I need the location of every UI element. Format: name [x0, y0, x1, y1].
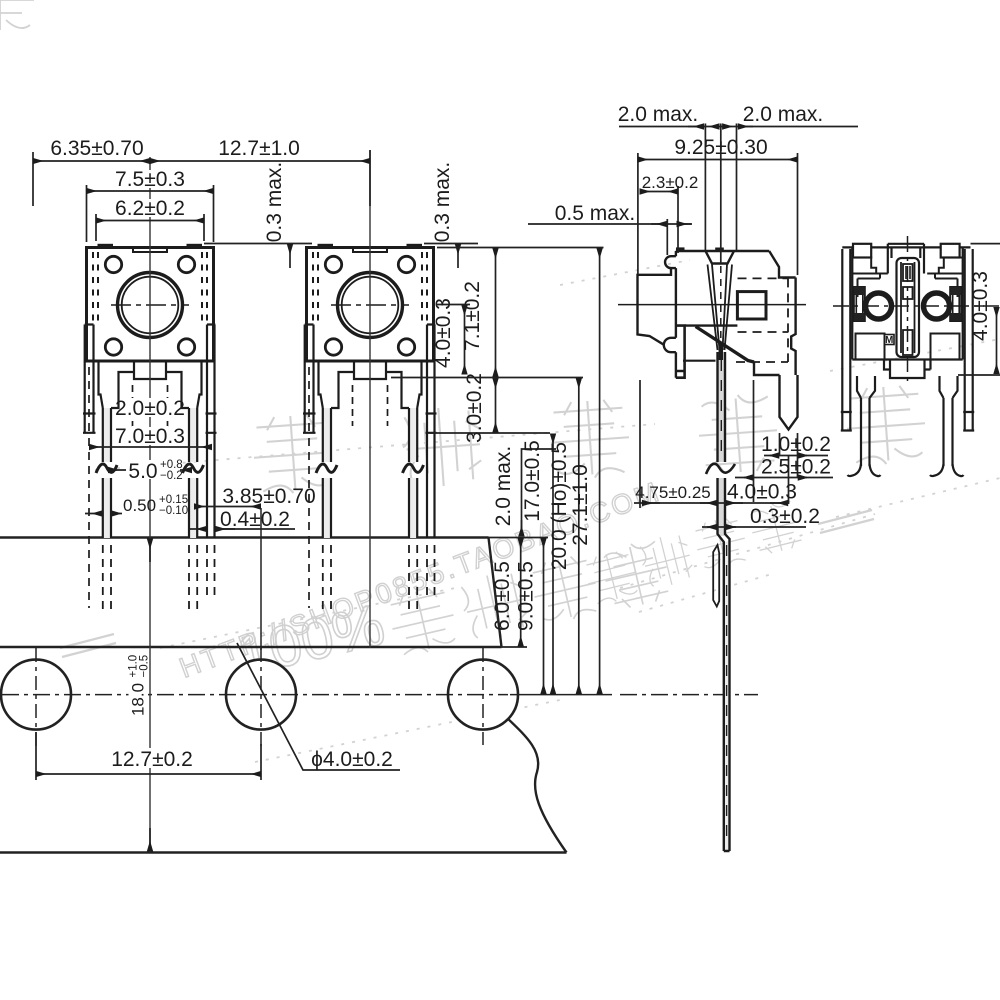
tape bottom edge	[0, 851, 567, 853]
terminal leg 1	[103, 408, 111, 538]
right bracket snap-in leg	[206, 325, 217, 539]
0.3max S1 arrow	[289, 245, 291, 269]
svg-text:5.0: 5.0	[128, 460, 157, 483]
lower ear	[664, 338, 676, 352]
sprocket hole 3	[448, 660, 518, 730]
dim line 12.7	[150, 160, 370, 162]
dim 2.3 extension	[677, 186, 679, 253]
clip right edge	[791, 278, 795, 376]
svg-text:17.0±0.5: 17.0±0.5	[521, 440, 544, 522]
side contact left	[854, 287, 865, 321]
steps right	[927, 258, 963, 298]
dim 3.0 line	[495, 379, 497, 433]
svg-text:6.2±0.2: 6.2±0.2	[115, 197, 185, 220]
right bracket	[963, 249, 974, 431]
sprocket hole 1	[1, 660, 71, 730]
bottom shelf	[754, 362, 780, 375]
hidden vertical	[787, 278, 789, 362]
short lead	[780, 375, 798, 430]
dim 0.50 arrows	[85, 513, 102, 515]
lead hidden centerline	[721, 360, 726, 845]
0.3max S1 tab line	[204, 243, 312, 245]
dim 0.4 arrows	[190, 528, 207, 530]
dim 6.0 line	[520, 539, 522, 647]
plunger tab right (black)	[187, 244, 203, 248]
sprocket hole 2	[226, 660, 296, 730]
top tab right	[941, 244, 960, 258]
dim 2.0 pin width lines	[117, 429, 132, 431]
rear horizontal centerline	[833, 305, 1000, 307]
dim line 6.35	[33, 160, 150, 162]
plunger cone lines	[708, 265, 733, 351]
terminal legs fill	[103, 408, 111, 462]
dim line 9.25	[638, 159, 798, 161]
hole 3 vertical centerline	[482, 648, 484, 745]
corner hole bottom-right	[178, 339, 194, 355]
left bracket	[83, 325, 96, 434]
svg-text:2.3±0.2: 2.3±0.2	[642, 173, 699, 192]
corner hole top-left	[105, 256, 121, 272]
svg-text:4.75±0.25: 4.75±0.25	[635, 483, 711, 502]
dim 0.5max line	[528, 223, 692, 225]
svg-text:2.0 max.: 2.0 max.	[492, 446, 515, 527]
text 6.2	[117, 199, 183, 217]
hidden edges	[736, 278, 788, 362]
rear seat extension	[958, 374, 1000, 376]
side view horizontal centerline	[618, 304, 806, 306]
4.75 extension (bracket edge)	[639, 380, 641, 508]
svg-text:0.5 max.: 0.5 max.	[555, 202, 636, 225]
tape top edge extension	[489, 537, 549, 539]
center column	[897, 258, 920, 357]
lead break squiggle	[706, 464, 735, 474]
bracket foot	[676, 326, 685, 378]
leg left foot	[848, 464, 881, 476]
hole 1 vertical centerline	[35, 648, 37, 748]
centerline S2	[369, 150, 371, 648]
rear vertical centerline	[907, 236, 909, 386]
rear dim 4.0 line	[996, 308, 998, 374]
tape torn slant edge	[489, 538, 502, 648]
central boss	[134, 361, 166, 379]
svg-text:3.85±0.70: 3.85±0.70	[222, 485, 315, 508]
hidden lines right	[202, 252, 207, 322]
dim line 2.3	[640, 191, 678, 193]
bottom block right	[931, 334, 960, 360]
plunger notch	[706, 251, 735, 264]
hole 2 vertical centerline	[260, 648, 262, 748]
text 18.0	[128, 655, 151, 724]
0.3max S2 arrow	[457, 245, 459, 269]
body outline	[87, 248, 214, 362]
plunger stem tip	[719, 344, 724, 360]
plunger tip (black)	[715, 248, 724, 252]
lead clinch tab	[713, 545, 719, 607]
leg hidden in tape leg2	[189, 545, 197, 612]
hidden lines left	[93, 252, 98, 322]
right top slant	[769, 251, 795, 278]
svg-text:27.1±1.0: 27.1±1.0	[569, 464, 592, 546]
svg-text:12.7±0.2: 12.7±0.2	[111, 748, 193, 771]
dim line 2.0max pair	[619, 126, 858, 128]
plunger tab left (black)	[98, 244, 114, 248]
top tab left	[853, 244, 871, 258]
body top edge	[676, 250, 769, 252]
dim 5.0 arrows	[109, 469, 129, 471]
dim 2.5 line	[735, 477, 833, 479]
button outer circle	[118, 273, 183, 338]
svg-text:1.0±0.2: 1.0±0.2	[761, 433, 831, 456]
button horizontal centerline	[111, 304, 189, 306]
watermark quality row	[582, 548, 641, 607]
body bottom edge	[685, 324, 738, 326]
bracket tip extension	[430, 432, 550, 434]
dim 4.75 / 4.0 base line	[634, 502, 789, 504]
svg-text:18.0: 18.0	[129, 683, 148, 716]
upper ear	[665, 256, 676, 268]
svg-text:−0.5: −0.5	[139, 655, 151, 678]
dim 18.0 arrows	[149, 539, 151, 562]
dim 7.0 line	[90, 446, 212, 448]
vertical dimension chain	[391, 248, 604, 694]
svg-text:12.7±1.0: 12.7±1.0	[218, 137, 300, 160]
base bottom edge	[683, 360, 716, 362]
dim 20.0 line	[578, 379, 580, 694]
contact window	[737, 292, 766, 319]
terminal leg 2	[189, 408, 197, 538]
svg-text:9.0±0.5: 9.0±0.5	[515, 561, 538, 631]
leg hidden in tape leg1	[103, 545, 111, 612]
boss hidden lines	[133, 385, 168, 426]
dim 12.7 tape extensions	[36, 732, 261, 780]
text 7.5	[116, 170, 184, 188]
svg-text:0.4±0.2: 0.4±0.2	[220, 508, 290, 531]
M mark	[885, 335, 895, 345]
text 6.35	[44, 138, 154, 157]
left bracket hidden leg	[88, 367, 90, 433]
dim 9.25 extensions	[638, 153, 798, 275]
text 5.0	[126, 460, 180, 479]
svg-text:0.3 max.: 0.3 max.	[263, 162, 286, 243]
svg-text:2.0±0.2: 2.0±0.2	[115, 397, 185, 420]
rear view	[833, 236, 1000, 476]
dim 0.4 leader underline	[216, 528, 296, 530]
svg-text:M: M	[885, 335, 893, 346]
leg left	[857, 376, 875, 466]
top center block	[888, 244, 924, 274]
centerline S1	[149, 150, 151, 852]
side view dimensions	[528, 124, 858, 528]
hole 2 extension up to 3.85 dim	[260, 508, 262, 650]
side dimension texts	[555, 103, 831, 528]
left dimension texts	[44, 137, 454, 771]
svg-text:0.3±0.2: 0.3±0.2	[750, 505, 820, 528]
leg right foot	[930, 464, 964, 476]
kink lever	[696, 327, 754, 363]
dim 0.3 line	[702, 526, 806, 528]
dim 17.0 line	[552, 434, 554, 694]
contact rivet left	[866, 293, 892, 319]
left dimensions	[33, 150, 478, 851]
2.5 extension tick (lever end)	[753, 380, 755, 502]
button inner circle	[122, 277, 179, 334]
break squiggle leg 2	[183, 464, 204, 473]
mounting bracket side	[638, 268, 672, 345]
corner hole bottom-left	[105, 339, 121, 355]
bottom boss	[884, 360, 931, 379]
housing bottom shoulders	[99, 361, 202, 408]
hole row centerline	[2, 694, 508, 696]
dim 9.0 line	[543, 539, 545, 694]
watermark equal marks	[818, 510, 874, 533]
svg-text:−0.2: −0.2	[160, 470, 183, 482]
svg-text:6.35±0.70: 6.35±0.70	[50, 137, 143, 160]
text 7.0	[117, 427, 183, 445]
dim 2.0max arrow	[521, 520, 523, 536]
svg-text:9.25±0.30: 9.25±0.30	[674, 136, 767, 159]
text 2.0	[121, 398, 180, 417]
watermark dotted rule lines	[95, 260, 1000, 762]
tape top edge	[0, 536, 489, 538]
watermark big characters row	[251, 413, 334, 495]
chain dimension texts	[432, 281, 592, 631]
svg-text:4.0±0.3: 4.0±0.3	[432, 298, 455, 368]
svg-text:7.1±0.2: 7.1±0.2	[461, 281, 484, 351]
switch front views	[83, 150, 437, 852]
svg-text:4.0±0.3: 4.0±0.3	[727, 481, 797, 504]
column box mid	[903, 287, 913, 299]
svg-text:0.50: 0.50	[123, 496, 156, 515]
plunger cone centerline	[720, 266, 722, 352]
leg right	[940, 376, 958, 466]
long lead	[718, 352, 730, 851]
dim 27.1 line	[599, 249, 601, 694]
column box top	[903, 264, 913, 281]
contact rivet right	[924, 293, 950, 319]
svg-text:0.3 max.: 0.3 max.	[431, 162, 454, 243]
dim line 7.5	[87, 190, 214, 192]
hole dia leader	[237, 643, 400, 770]
svg-text:−0.10: −0.10	[159, 505, 188, 517]
top edge notch	[133, 248, 167, 253]
lead gray fill	[718, 352, 724, 462]
seating plane extension line	[391, 377, 583, 379]
svg-text:20.0 (Ho)±0.5: 20.0 (Ho)±0.5	[548, 442, 571, 570]
left bracket	[841, 249, 852, 431]
tape carrier	[0, 508, 758, 853]
body outline	[842, 247, 970, 359]
svg-text:6.0±0.5: 6.0±0.5	[491, 561, 514, 631]
bottom block left	[856, 334, 885, 360]
corner hole top-right	[178, 256, 194, 272]
dim 1.0 line	[764, 455, 828, 457]
dim 4.0 line (button CL to seat)	[464, 306, 466, 375]
button centerline extension	[436, 304, 470, 306]
2.0max leader	[522, 449, 557, 530]
watermark	[0, 0, 1000, 762]
snap-in leg hidden in tape	[207, 545, 215, 600]
0.3max S2 tab line	[424, 243, 478, 245]
dim line 12.7 tape	[36, 773, 261, 775]
1.0 extension ticks	[780, 433, 798, 504]
steps left	[852, 258, 888, 298]
svg-text:2.5±0.2: 2.5±0.2	[761, 456, 831, 479]
side contact right	[950, 287, 961, 321]
svg-text:4.0±0.3: 4.0±0.3	[969, 271, 992, 341]
tape band bottom edge	[0, 646, 502, 648]
svg-text:7.5±0.3: 7.5±0.3	[115, 168, 185, 191]
svg-text:ϕ4.0±0.2: ϕ4.0±0.2	[311, 748, 393, 771]
left body edge	[675, 251, 677, 378]
text 12.7 tape	[110, 748, 194, 768]
dim 3.85 line	[195, 506, 261, 508]
2.0max extension ticks	[705, 124, 736, 264]
side view	[618, 247, 806, 851]
dim 7.5 extensions	[87, 185, 214, 242]
dim line 6.2	[96, 220, 204, 222]
dim 7.1 line	[495, 249, 497, 377]
body top extension line	[437, 247, 604, 249]
switch S1 front view	[83, 244, 217, 612]
svg-text:3.0±0.2: 3.0±0.2	[463, 373, 486, 443]
0.5max extension ticks	[666, 219, 668, 255]
switch S2 front view	[303, 244, 437, 612]
dim 6.35/12.7 extension ticks	[33, 150, 370, 206]
rear top extension	[971, 243, 1000, 245]
dim 6.2 extensions	[96, 214, 204, 241]
svg-text:7.0±0.3: 7.0±0.3	[115, 425, 185, 448]
svg-text:2.0 max.: 2.0 max.	[618, 103, 699, 126]
band bottom extension	[502, 646, 528, 648]
svg-text:2.0 max.: 2.0 max.	[743, 103, 824, 126]
torn S edge	[505, 716, 567, 853]
bracket top tab (black)	[676, 247, 685, 251]
break squiggle leg 1	[96, 464, 117, 473]
column box low	[903, 330, 913, 355]
